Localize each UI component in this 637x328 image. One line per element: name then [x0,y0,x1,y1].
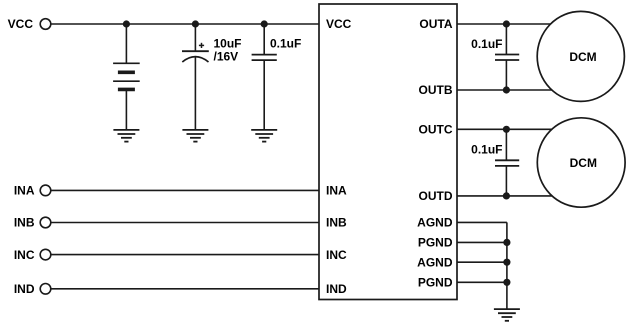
ground G4 [494,309,520,321]
svg-text:0.1uF: 0.1uF [270,37,301,51]
wire INA [51,189,319,191]
svg-text:AGND: AGND [417,255,453,269]
junction dot OUTC-C4 [503,126,510,133]
svg-text:INC: INC [326,248,347,262]
wire battery branch bottom [125,89,127,129]
junction dot VCC-battery [123,20,130,27]
ground G1 [113,130,139,142]
junction dot VCC-C1 [192,20,199,27]
node IND terminal [40,284,51,295]
wire ground bus vertical [506,222,508,309]
svg-text:OUTB: OUTB [419,83,453,97]
svg-text:/16V: /16V [214,50,239,64]
wire AGND pin 2 [457,261,507,263]
svg-text:OUTD: OUTD [419,189,453,203]
svg-text:INB: INB [326,216,347,230]
wire 10uF branch top [194,24,196,51]
svg-text:VCC: VCC [8,17,34,31]
junction dot PGND2 bus [503,279,510,286]
wire capacitor C3 top lead [505,24,507,55]
junction dot PGND1 bus [503,239,510,246]
wire OUTA [457,23,562,25]
wire VCC rail [51,23,319,25]
svg-text:AGND: AGND [417,216,453,230]
junction dot OUTB-C3 [503,86,510,93]
wire INC [51,254,319,256]
wire 0.1uF branch bottom [263,60,265,130]
wire battery branch top [125,24,127,63]
junction dot AGND2 bus [503,259,510,266]
svg-text:PGND: PGND [418,276,453,290]
motor M1 DCM [537,11,624,101]
svg-text:INC: INC [14,248,35,262]
wire capacitor C3 bottom lead [505,60,507,90]
junction dot VCC-C2 [261,20,268,27]
svg-text:INB: INB [14,216,35,230]
capacitor C1 polarized plus sign [199,43,204,48]
svg-text:DCM: DCM [570,156,597,170]
junction dot OUTD-C4 [503,192,510,199]
battery B1 [113,63,140,89]
capacitor C1 10uF plates [182,51,209,62]
svg-text:DCM: DCM [569,50,596,64]
wire 0.1uF branch top [263,24,265,55]
ground G3 [251,130,277,142]
svg-text:IND: IND [326,282,347,296]
ground G2 [182,130,208,142]
wire OUTD [457,195,562,197]
capacitor C4 0.1uF plates [495,160,519,166]
svg-text:OUTA: OUTA [419,17,452,31]
wire INB [51,222,319,224]
svg-text:OUTC: OUTC [419,123,453,137]
wire 10uF branch bottom [194,57,196,130]
junction dot OUTA-C3 [503,20,510,27]
node VCC terminal [40,19,51,30]
wire capacitor C4 top lead [505,129,507,160]
wire PGND pin 1 [457,241,507,243]
capacitor C2 0.1uF plates [252,55,277,61]
svg-text:0.1uF: 0.1uF [471,37,502,51]
svg-text:INA: INA [326,184,347,198]
wire IND [51,288,319,290]
wire AGND pin 1 [457,221,507,223]
capacitor C3 0.1uF plates [495,55,519,61]
IC U1 motor driver body [319,4,457,300]
wire PGND pin 2 [457,281,507,283]
node INB terminal [40,217,51,228]
wire OUTB [457,89,562,91]
svg-text:0.1uF: 0.1uF [471,143,502,157]
motor M2 DCM [537,118,625,207]
wire OUTC [457,128,563,130]
svg-text:IND: IND [14,282,35,296]
node INC terminal [40,249,51,260]
svg-text:INA: INA [14,184,35,198]
wire capacitor C4 bottom lead [505,166,507,196]
svg-text:VCC: VCC [326,17,352,31]
node INA terminal [40,185,51,196]
svg-text:PGND: PGND [418,236,453,250]
